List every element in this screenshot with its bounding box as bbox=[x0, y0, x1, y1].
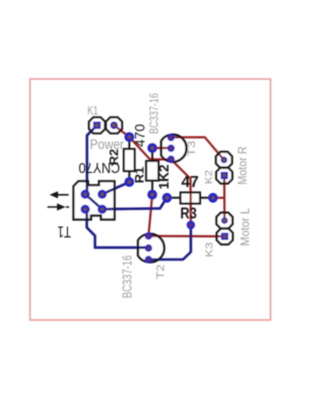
svg-text:BC337-16: BC337-16 bbox=[147, 93, 161, 134]
svg-text:Motor L: Motor L bbox=[238, 208, 252, 246]
svg-text:R3: R3 bbox=[180, 205, 197, 222]
svg-text:K3: K3 bbox=[204, 242, 216, 257]
svg-text:47: 47 bbox=[181, 174, 199, 191]
svg-text:T1: T1 bbox=[57, 222, 71, 239]
svg-text:K2: K2 bbox=[203, 170, 215, 185]
svg-text:T2: T2 bbox=[155, 264, 167, 279]
svg-text:CNY70: CNY70 bbox=[79, 159, 121, 176]
svg-text:BC337-16: BC337-16 bbox=[120, 255, 134, 298]
svg-text:T3: T3 bbox=[186, 141, 198, 157]
svg-text:K1: K1 bbox=[87, 103, 98, 117]
svg-text:1K2: 1K2 bbox=[155, 164, 171, 189]
svg-text:470: 470 bbox=[132, 124, 147, 147]
svg-text:R1: R1 bbox=[135, 166, 147, 183]
svg-text:Motor R: Motor R bbox=[236, 146, 250, 185]
